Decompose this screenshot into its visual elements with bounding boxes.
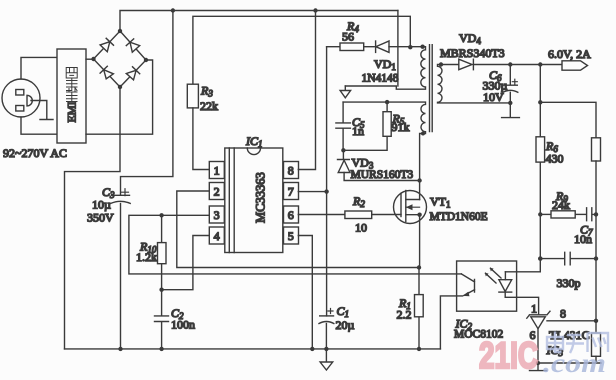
resistor R3 <box>187 84 218 114</box>
node output R6 tap <box>538 62 542 66</box>
watermark 21IC.com dianziwang <box>479 332 608 379</box>
svg-text:350V: 350V <box>87 211 114 225</box>
node output C6 tap <box>508 62 512 66</box>
capacitor 330p <box>540 252 596 290</box>
wire C3 plus riser <box>121 11 173 196</box>
capacitor C2 <box>155 290 196 349</box>
wire plug top to EMI <box>21 57 57 79</box>
node LED anode 330p junction <box>538 256 542 260</box>
ground symbol at C1 <box>320 349 333 370</box>
svg-text:10: 10 <box>355 220 367 234</box>
wire pin5 to ground <box>298 236 312 349</box>
svg-text:92~270V AC: 92~270V AC <box>3 146 67 160</box>
svg-text:VD1: VD1 <box>374 57 396 72</box>
pin 1 <box>209 162 224 179</box>
node secondary polarity dot <box>439 62 443 66</box>
wire EMI to bridge left vertex <box>86 58 94 60</box>
svg-text:6: 6 <box>288 208 294 222</box>
capacitor C3 <box>87 185 130 225</box>
node rail A source junction <box>417 265 421 269</box>
resistor R10 <box>136 215 166 289</box>
wire rail1 descender to drain node <box>397 11 399 87</box>
wire R8 bottom to anode rail <box>538 356 601 363</box>
svg-text:91k: 91k <box>392 120 410 134</box>
node C6-secondary return <box>508 101 512 105</box>
bridge rectifier VD <box>91 29 148 89</box>
wire rail2 R3 feed <box>193 16 410 84</box>
capacitor C5 <box>336 102 365 150</box>
node pin4-R10 bottom <box>159 288 163 292</box>
wire right column <box>595 161 597 333</box>
wire R3 to pin1 <box>193 108 209 170</box>
svg-text:MC33363: MC33363 <box>254 172 268 223</box>
node R1-ground <box>417 347 421 351</box>
svg-text:330p: 330p <box>557 276 581 290</box>
svg-text:R2: R2 <box>352 194 365 209</box>
node rail2-VD1 <box>408 45 412 49</box>
svg-text:VD4: VD4 <box>459 31 481 46</box>
svg-text:100n: 100n <box>171 317 195 331</box>
svg-text:6.0V, 2A: 6.0V, 2A <box>548 47 591 61</box>
transformer T1 primary winding <box>345 47 425 89</box>
pin 8 <box>284 162 299 179</box>
wire pin3 to feedback rail B <box>129 215 461 274</box>
wire pin7 to Vcc column <box>298 191 326 193</box>
svg-text:MTD1N60E: MTD1N60E <box>430 211 488 223</box>
wire output sense to right column <box>540 102 596 138</box>
node pin7-Vcc <box>324 189 328 193</box>
wire plug bottom to EMI <box>21 117 57 134</box>
resistor R2 <box>298 194 401 234</box>
svg-text:2.2: 2.2 <box>397 307 412 321</box>
diode VD1 1N4148 <box>362 41 423 84</box>
node C3-ground <box>118 347 122 351</box>
svg-text:R3: R3 <box>200 84 213 99</box>
wire Vcc column R4-left down to C1 <box>326 47 328 316</box>
pin 7 <box>284 183 299 200</box>
svg-text:IC1: IC1 <box>245 134 263 149</box>
wire pin8 to rail1 <box>298 11 315 170</box>
wire EMI bottom to bridge right vertex <box>86 60 153 134</box>
transformer T1 core <box>430 45 433 132</box>
resistor R6 <box>536 137 564 166</box>
diode VD3 MURS160T3 <box>338 150 420 181</box>
node R6-output sense <box>538 100 542 104</box>
resistor R1 <box>397 268 424 349</box>
shunt regulator IC3 TL431C <box>527 302 590 371</box>
node primary top dot <box>420 45 424 49</box>
svg-text:VD3: VD3 <box>352 155 374 170</box>
svg-text:.com: .com <box>543 348 606 378</box>
ground rail bottom <box>65 348 441 350</box>
svg-text:1: 1 <box>531 302 537 316</box>
resistor R9 <box>540 189 586 218</box>
svg-text:3: 3 <box>214 208 220 222</box>
transformer T1 secondary winding <box>438 65 511 103</box>
wire R6 column <box>505 65 540 272</box>
svg-text:VT1: VT1 <box>430 195 451 210</box>
svg-text:10n: 10n <box>574 232 592 246</box>
op-amp IC1 MC33363 body <box>225 134 283 253</box>
output terminal 6.0V 2A <box>548 47 591 70</box>
node rail1-C3 tap <box>171 8 175 12</box>
svg-text:1n: 1n <box>352 124 364 138</box>
node pin8 wire right column <box>594 319 598 323</box>
pin 2 <box>209 183 224 200</box>
node C5-VD3 <box>341 148 345 152</box>
svg-text:8: 8 <box>560 307 566 321</box>
node C1-ground <box>324 347 328 351</box>
wire bridge top riser and HV+ rail1 <box>120 11 398 32</box>
svg-text:10µ: 10µ <box>92 198 111 212</box>
svg-text:EMI: EMI <box>67 101 79 122</box>
svg-text:22k: 22k <box>200 99 218 113</box>
node C2-ground <box>159 347 163 351</box>
node 330p right <box>594 256 598 260</box>
resistor R8 right column lower <box>592 333 601 356</box>
resistor R4 <box>327 19 375 51</box>
node aux top R5 <box>385 100 389 104</box>
node VD3-drain <box>417 178 421 182</box>
wire C3 to ground rail <box>120 203 122 349</box>
svg-text:1.2k: 1.2k <box>136 250 157 264</box>
pin 3 <box>209 206 224 223</box>
svg-text:5: 5 <box>288 229 294 243</box>
svg-text:20µ: 20µ <box>336 318 355 332</box>
svg-text:56: 56 <box>342 30 354 44</box>
svg-text:8: 8 <box>288 163 294 177</box>
svg-text:24k: 24k <box>552 198 570 212</box>
node 330p left <box>538 256 542 260</box>
node R9 left <box>538 212 542 216</box>
svg-text:MURS160T3: MURS160T3 <box>351 169 414 181</box>
AC plug P1 <box>2 79 53 120</box>
wire TL431 cathode to right column <box>547 320 596 322</box>
EMI filter box <box>57 49 86 143</box>
pin 4 <box>209 227 224 244</box>
pin 5 <box>284 227 299 244</box>
svg-text:4: 4 <box>214 229 220 243</box>
resistor R5 <box>343 102 409 150</box>
wire pin4 <box>162 236 209 290</box>
wire bridge bottom return <box>65 87 121 349</box>
pin 6 <box>284 206 299 223</box>
svg-text:1N4148: 1N4148 <box>362 72 399 84</box>
svg-text:10V: 10V <box>483 90 504 104</box>
svg-text:MBRS340T3: MBRS340T3 <box>440 46 505 60</box>
diode VD4 MBRS340T3 <box>440 31 562 70</box>
node pin3-R10 <box>159 213 163 217</box>
capacitor C7 <box>574 208 596 246</box>
optocoupler IC2 MOC8102 <box>440 261 538 349</box>
ground symbol at C6 <box>502 103 520 118</box>
node C7 right <box>594 212 598 216</box>
node rail1-pin8 tap <box>313 8 317 12</box>
svg-text:7: 7 <box>288 184 294 198</box>
svg-text:2: 2 <box>214 184 220 198</box>
svg-text:21IC: 21IC <box>479 335 538 376</box>
ground symbol at drain snubber <box>340 86 351 98</box>
wire pin2 to current-sense rail A <box>177 191 419 268</box>
resistor R7 right column upper <box>592 138 601 161</box>
capacitor C1 <box>319 304 355 349</box>
node TL431 anode rail <box>536 361 540 365</box>
transistor VT1 MTD1N60E <box>394 181 488 268</box>
node aux polarity dot <box>421 132 425 136</box>
transformer T1 aux winding <box>343 102 425 180</box>
node pin5-ground <box>310 347 314 351</box>
svg-text:430: 430 <box>546 152 564 166</box>
capacitor C6 <box>483 65 518 105</box>
svg-text:1: 1 <box>214 163 220 177</box>
svg-text:C1: C1 <box>337 304 350 319</box>
